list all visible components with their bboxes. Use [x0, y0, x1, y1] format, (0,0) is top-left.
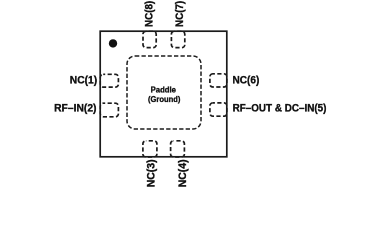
svg-text:RF–OUT & DC–IN(5): RF–OUT & DC–IN(5)	[233, 103, 327, 115]
svg-text:NC(7): NC(7)	[174, 1, 186, 27]
svg-text:NC(4): NC(4)	[177, 159, 189, 187]
svg-text:NC(1): NC(1)	[70, 74, 97, 86]
svg-text:NC(6): NC(6)	[233, 74, 260, 86]
svg-text:(Ground): (Ground)	[148, 94, 181, 104]
svg-text:RF–IN(2): RF–IN(2)	[54, 103, 96, 115]
svg-text:NC(3): NC(3)	[145, 159, 157, 187]
svg-text:NC(8): NC(8)	[144, 1, 156, 27]
